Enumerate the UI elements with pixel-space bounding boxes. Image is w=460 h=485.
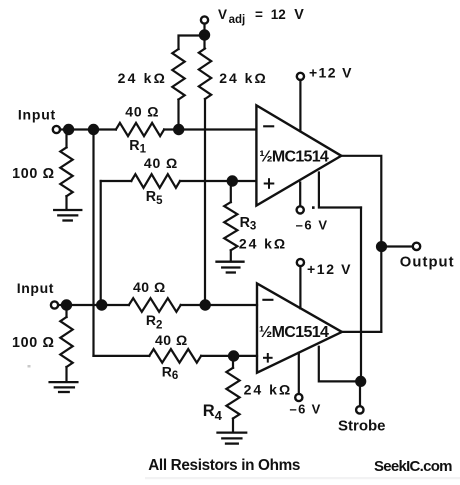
wire input1 branch down to R6: [92, 130, 94, 356]
resistor 100 ohm (bottom input): [65, 305, 67, 317]
wire R5 down to R2 line (input2 riser): [100, 181, 102, 305]
ground (R3): [217, 262, 244, 273]
svg-text:SeekIC.com: SeekIC.com: [374, 458, 453, 475]
wire R6 to U2 plus input: [201, 355, 257, 357]
wire output junction to terminal: [382, 245, 413, 247]
svg-text:R6: R6: [162, 364, 179, 383]
node 24k-left / R1 junction: [174, 125, 183, 134]
wire R2 to U2 minus input: [181, 304, 257, 306]
resistor R4 24k: [232, 356, 234, 368]
wire R1 to U1 minus input: [164, 128, 256, 130]
svg-text:40 Ω: 40 Ω: [155, 332, 187, 348]
wire input1 to minus input of U1: [60, 128, 116, 130]
svg-text:–6 V: –6 V: [296, 217, 328, 232]
wire junction to left 24k top: [179, 36, 205, 50]
terminal Strobe: [356, 406, 363, 413]
svg-text:24 kΩ: 24 kΩ: [239, 236, 285, 252]
svg-text:24 kΩ: 24 kΩ: [244, 382, 291, 398]
svg-text:–6 V: –6 V: [290, 401, 321, 416]
svg-text:40 Ω: 40 Ω: [133, 279, 165, 295]
wire Vadj terminal to junction: [203, 24, 205, 49]
resistor R5 40ohm: [131, 174, 180, 188]
terminal -6V (U2): [295, 394, 302, 401]
svg-text:Output: Output: [400, 255, 454, 271]
terminal Output: [413, 243, 420, 250]
resistor 100 ohm (top input): [65, 130, 67, 148]
svg-text:+12 V: +12 V: [307, 261, 351, 277]
artifact faint speck: [28, 365, 31, 368]
ground (100 ohm top): [54, 210, 81, 221]
terminal Vadj: [201, 16, 208, 23]
terminal +12V (U1): [297, 73, 304, 80]
svg-text:½MC1514: ½MC1514: [259, 324, 329, 341]
svg-text:R1: R1: [129, 138, 146, 156]
U1 minus pin symbol: [264, 125, 273, 127]
wire 24k left bottom lead: [177, 100, 179, 130]
svg-text:R3: R3: [240, 215, 257, 233]
svg-text:R2: R2: [146, 312, 163, 332]
resistor R1 40ohm: [116, 123, 164, 136]
svg-text:100 Ω: 100 Ω: [12, 166, 54, 182]
wire input2 to minus input of U2: [58, 304, 129, 306]
terminal Input 2: [51, 301, 58, 308]
svg-text:24 kΩ: 24 kΩ: [118, 70, 165, 86]
svg-text:100 Ω: 100 Ω: [12, 335, 54, 351]
resistor R2 40ohm: [129, 298, 181, 312]
wire +12V to U2 top edge: [299, 266, 301, 308]
node strobe junction: [356, 377, 365, 386]
wire R5 to U1 plus input: [180, 180, 256, 182]
op-amp U1 triangle: [256, 105, 341, 205]
terminal -6V (U1): [297, 206, 304, 213]
svg-text:+12 V: +12 V: [309, 65, 352, 81]
resistor R6 40ohm: [149, 349, 201, 363]
svg-text:All Resistors in Ohms: All Resistors in Ohms: [148, 457, 300, 474]
resistor 24k right (top): [199, 49, 211, 100]
terminal Input 1: [53, 126, 60, 133]
op-amp U2 triangle: [257, 284, 342, 373]
wire 24k right down to R2 line: [204, 99, 206, 305]
U2 plus pin symbol: [264, 354, 272, 362]
node input1 branch to R6: [89, 125, 98, 134]
wire R6 left from input1 riser corner: [94, 355, 150, 357]
svg-text:Strobe: Strobe: [338, 418, 386, 435]
wire strobe bus vertical: [360, 208, 362, 382]
wire +12V to U1 top edge: [299, 80, 301, 131]
node input2 (100 ohm tap): [62, 300, 71, 309]
wire strobe junction to terminal: [359, 381, 361, 406]
wire U1 -6V pin: [299, 183, 301, 207]
node Output junction: [377, 242, 386, 251]
svg-text:40 Ω: 40 Ω: [144, 155, 177, 171]
svg-text:Vadj=12V: Vadj=12V: [218, 7, 304, 26]
node Vadj junction: [200, 30, 209, 39]
artifact dot near -6V U1: [312, 206, 315, 209]
U2 minus pin symbol: [263, 299, 272, 301]
wire U2 strobe pin down and right: [319, 347, 361, 382]
node input1 (100 ohm tap): [64, 125, 73, 134]
ground (R4): [218, 433, 247, 444]
node 24k-right / R2 junction: [201, 300, 210, 309]
wire U1 strobe pin down and right: [319, 173, 361, 208]
svg-text:40 Ω: 40 Ω: [125, 103, 158, 119]
ground (100 ohm bottom): [50, 382, 78, 392]
node U2 plus input / R4: [229, 351, 238, 360]
terminal +12V (U2): [297, 259, 304, 266]
svg-text:R4: R4: [203, 402, 223, 423]
resistor R3 24k: [230, 181, 232, 202]
svg-text:24 kΩ: 24 kΩ: [219, 70, 266, 86]
svg-text:Input: Input: [17, 280, 54, 296]
wire R5 left corner from input2 riser: [101, 180, 132, 182]
svg-text:½MC1514: ½MC1514: [259, 148, 329, 165]
wire U2 output to output bus: [342, 331, 381, 333]
svg-text:Input: Input: [18, 106, 56, 122]
node R5 riser / R2 junction: [97, 300, 106, 309]
wire U1 output to output bus: [341, 156, 381, 332]
wire U2 -6V pin: [298, 353, 300, 394]
resistor 24k left (top): [172, 49, 184, 100]
node U1 plus input / R3: [228, 176, 237, 185]
svg-text:R5: R5: [146, 189, 163, 207]
artifact faint bottom band: [145, 477, 460, 479]
U1 plus pin symbol: [265, 179, 274, 188]
